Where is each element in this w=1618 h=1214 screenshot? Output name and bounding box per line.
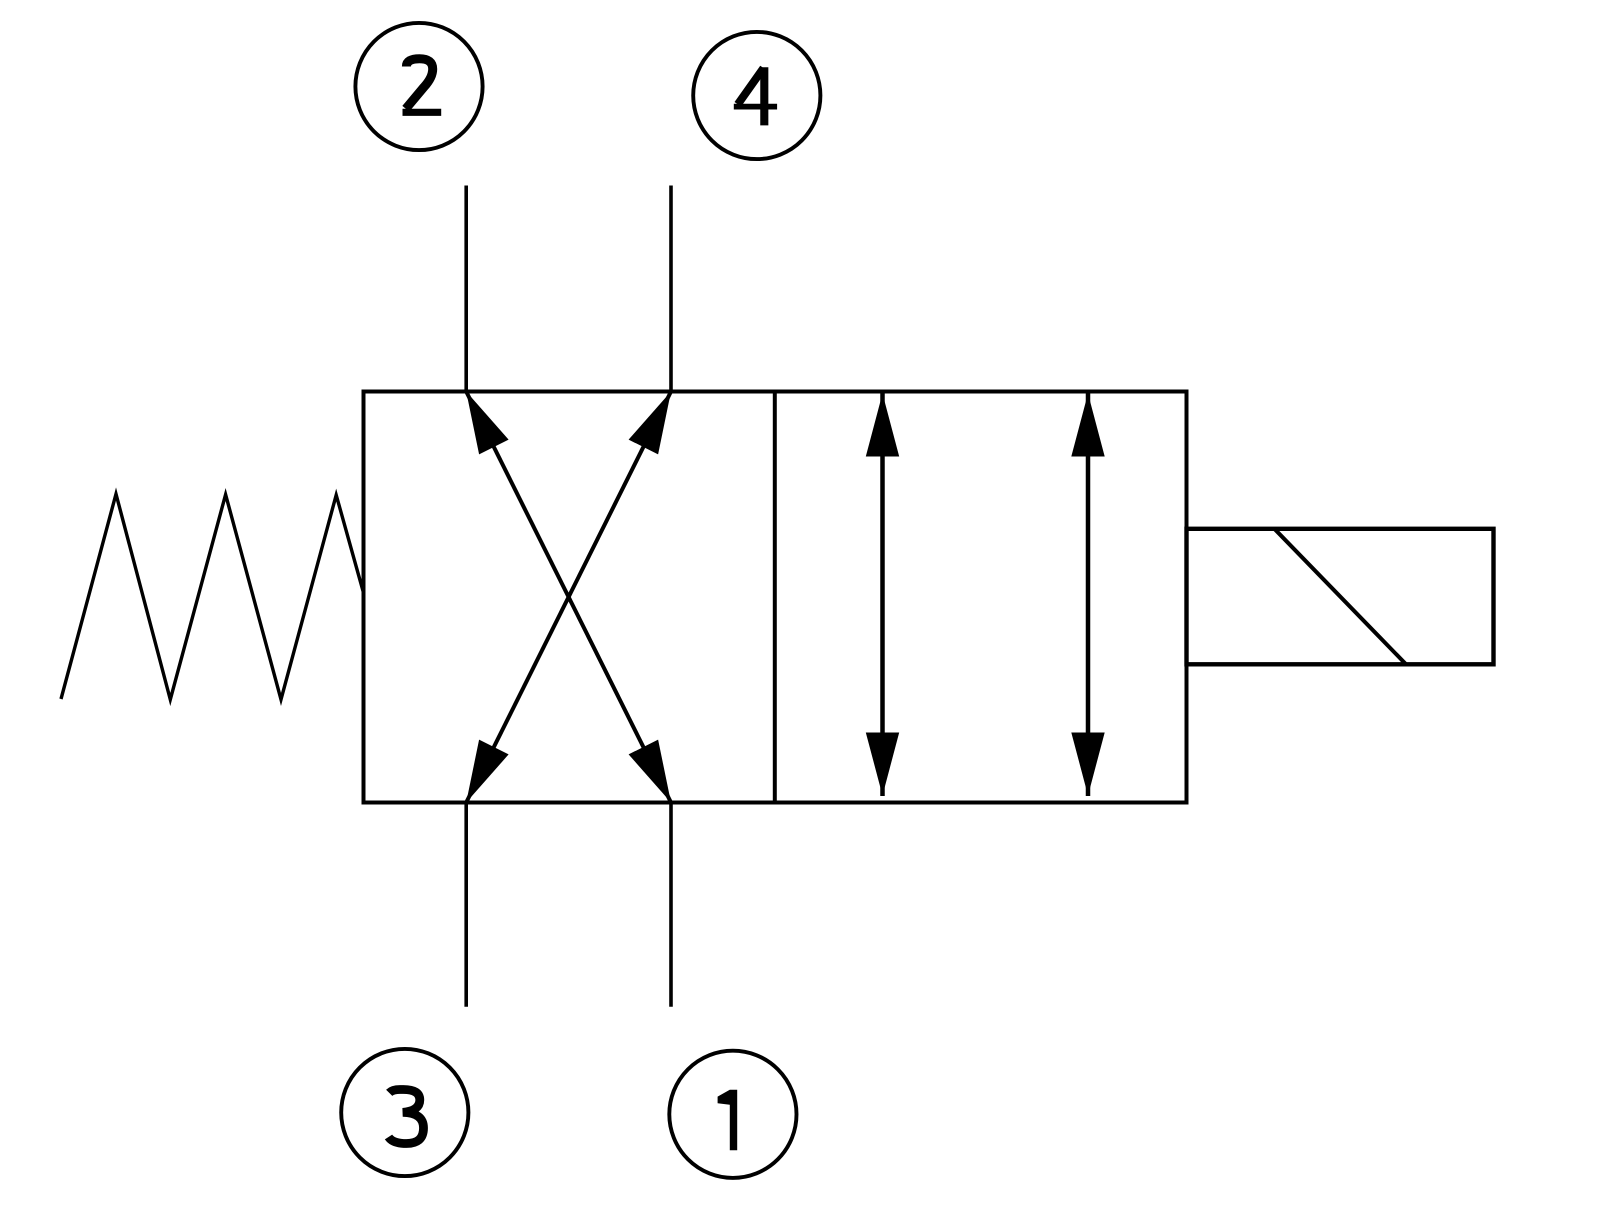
- port circle 2: [355, 23, 482, 150]
- port circle 4: [693, 32, 820, 159]
- crossed flow arrow A (port1 to port2): [466, 392, 671, 803]
- straight flow arrow right (right cell): [1071, 392, 1104, 797]
- straight flow arrow left (right cell): [866, 392, 899, 797]
- wire port 3 (bottom-left vertical line): [464, 803, 468, 1007]
- solenoid diagonal stroke: [1274, 529, 1406, 665]
- crossed flow arrow B (port3 to port4): [466, 392, 671, 803]
- port circle 3: [341, 1049, 468, 1176]
- wire port 2 (top-left vertical line): [464, 186, 468, 392]
- port circle 1: [669, 1051, 796, 1178]
- wire port 4 (top-right vertical line): [669, 186, 673, 392]
- wire port 1 (bottom-right vertical line): [669, 803, 673, 1007]
- return spring: [61, 494, 363, 700]
- solenoid actuator box: [1187, 529, 1494, 665]
- valve body outline: [364, 392, 1187, 803]
- valve position divider: [773, 392, 777, 803]
